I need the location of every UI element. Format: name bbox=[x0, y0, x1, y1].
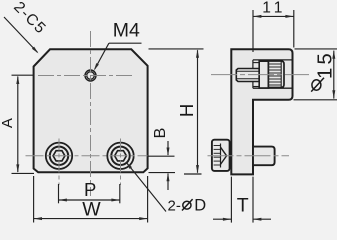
svg-text:2-: 2- bbox=[168, 197, 181, 214]
svg-text:D: D bbox=[194, 196, 206, 214]
svg-text:P: P bbox=[84, 179, 96, 200]
svg-text:T: T bbox=[237, 195, 249, 217]
svg-text:2-C5: 2-C5 bbox=[10, 0, 49, 38]
svg-text:15: 15 bbox=[313, 50, 336, 79]
svg-text:11: 11 bbox=[262, 0, 286, 16]
svg-text:W: W bbox=[82, 198, 101, 220]
svg-text:M4: M4 bbox=[113, 19, 140, 41]
svg-text:A: A bbox=[0, 118, 16, 128]
svg-text:H: H bbox=[176, 104, 197, 117]
svg-text:B: B bbox=[152, 128, 169, 139]
